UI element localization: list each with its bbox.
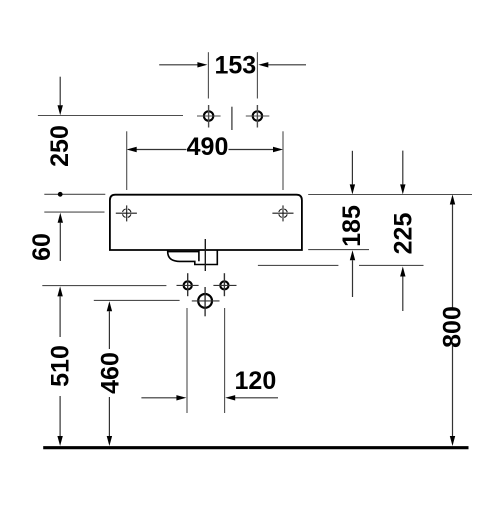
dim 120 arrow left <box>141 397 176 399</box>
ref line tap level left <box>38 115 183 117</box>
dim 120 arrow right <box>235 397 278 399</box>
dim 185 down arrow <box>351 151 353 185</box>
svg-text:185: 185 <box>338 205 366 247</box>
tap centerline between holes <box>231 107 233 130</box>
dim 153 extension line left <box>207 52 209 98</box>
dim 460 vertical line upper <box>108 311 110 349</box>
basin outline <box>110 195 302 250</box>
dim 800 vertical line upper <box>452 205 454 309</box>
siphon trap outline <box>168 250 218 265</box>
dim 490 line right segment with arrow <box>229 149 274 151</box>
dim 490 line left segment with arrow <box>137 149 187 151</box>
svg-text:800: 800 <box>439 306 467 348</box>
basin mounting crosshair left <box>116 205 137 221</box>
dim 120 extension line right <box>224 308 226 413</box>
dim 800 vertical line lower <box>452 346 454 436</box>
svg-text:60: 60 <box>28 233 56 261</box>
dim 510 vertical line upper <box>59 296 61 337</box>
floor line <box>43 446 468 449</box>
dim 60 up arrow <box>59 223 61 261</box>
basin mounting crosshair right <box>272 205 293 221</box>
dim 153 arrow line left <box>159 64 197 66</box>
svg-text:490: 490 <box>187 133 229 161</box>
ref line 460 level <box>94 299 180 301</box>
dim 120 extension line left <box>186 308 188 413</box>
svg-text:225: 225 <box>390 213 418 255</box>
tap hole circle left <box>204 111 213 120</box>
dim 250 down arrow <box>59 77 61 106</box>
dim 490 extension line left <box>126 131 128 190</box>
svg-text:250: 250 <box>46 125 74 167</box>
dim 225 down arrow <box>402 151 404 185</box>
dim 153 arrow line right <box>268 64 306 66</box>
dim 225 up arrow <box>402 277 404 312</box>
svg-text:153: 153 <box>214 52 256 80</box>
dim 510 vertical line lower <box>59 396 61 436</box>
dim 185 up arrow <box>352 260 354 297</box>
tap hole circle right <box>253 111 262 120</box>
tap hole right crosshair <box>246 115 269 117</box>
dim 460 vertical line lower <box>108 397 110 436</box>
fixing hole small right <box>220 281 228 289</box>
ref line top right (basin top level) <box>308 194 472 196</box>
tap hole left crosshair <box>197 115 221 117</box>
ref line low right segment A <box>258 264 339 266</box>
svg-text:510: 510 <box>46 345 74 387</box>
ref line mid right (basin bottom level) <box>308 249 369 251</box>
dim 60 lower ref line <box>44 211 104 213</box>
ref line 510 level <box>42 285 166 287</box>
dim 60 upper ref line with dot <box>44 193 105 195</box>
drain centerline <box>204 239 206 271</box>
dim 153 extension line right <box>256 52 258 98</box>
drain hole big circle <box>198 294 212 308</box>
svg-text:120: 120 <box>235 367 277 395</box>
dim 490 extension line right <box>282 131 284 190</box>
svg-text:460: 460 <box>97 352 125 394</box>
fixing hole small left <box>184 281 192 289</box>
ref line low right segment B <box>359 264 424 266</box>
